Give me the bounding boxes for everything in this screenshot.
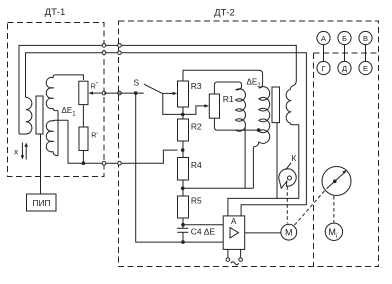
dashed link gauge to Mi <box>333 196 335 223</box>
wire secondary output to DT-2 <box>68 120 178 163</box>
svg-text:S: S <box>134 78 140 88</box>
connector circle V <box>359 31 372 44</box>
amplifier triangle symbol <box>230 228 239 239</box>
svg-text:Е: Е <box>363 64 368 73</box>
switch S arm <box>144 84 163 94</box>
terminal DT-1 wiper output <box>102 91 106 95</box>
svg-text:Б: Б <box>342 34 347 43</box>
svg-text:R3: R3 <box>191 81 202 91</box>
enclosure DT-1 dashed box <box>8 23 105 177</box>
sensor PIP box <box>27 194 57 211</box>
junction T2 winding tap <box>257 128 261 132</box>
terminal DT-2 excitation 1 <box>118 44 122 48</box>
motor M circle <box>281 224 297 240</box>
wire node to amp upper input <box>183 224 223 226</box>
partition dashed line horizontal (indicator section) <box>314 52 379 54</box>
transformer T2 winding B <box>253 87 269 189</box>
capacitor C4 plate top <box>177 227 188 229</box>
wire wiper line to switch <box>104 92 144 94</box>
terminal DT-1 excitation 2 <box>102 51 106 55</box>
arrowhead R1 wiper <box>204 104 209 107</box>
terminal DT-2 excitation 2 <box>118 51 122 55</box>
transformer T2 core <box>272 87 280 123</box>
connector circle B <box>338 31 351 44</box>
load Mi circle <box>325 223 342 240</box>
junction C4 bottom <box>181 240 185 244</box>
resistor R2 <box>178 119 189 141</box>
connector circle G <box>317 61 330 74</box>
mechanical rod T2 core <box>276 123 278 199</box>
arrowhead R3 wiper <box>173 92 178 95</box>
terminal DT-2 signal input <box>118 161 122 165</box>
wire R1 top to T2 winding A <box>214 82 241 94</box>
svg-text:В: В <box>363 34 368 43</box>
svg-text:ΔE1: ΔE1 <box>62 106 77 118</box>
wire amp power lead right <box>240 249 242 257</box>
svg-text:Г: Г <box>321 64 325 73</box>
arrowhead gauge needle <box>342 170 347 174</box>
svg-text:x: x <box>14 147 19 157</box>
displacement input x arrows <box>14 143 28 160</box>
wire R'' to R' <box>82 105 84 127</box>
svg-text:C4: C4 <box>191 226 202 236</box>
resistor R'' <box>79 81 88 104</box>
terminal amp power left <box>226 258 230 262</box>
transformer T1 secondary upper coil <box>46 75 83 111</box>
wire R'' wiper arrow <box>91 92 104 94</box>
svg-text:R5: R5 <box>191 196 202 206</box>
junction R' bottom <box>82 161 86 165</box>
connector circle D <box>338 61 351 74</box>
wire dE2 bottom to R4-R5 node <box>183 187 254 189</box>
transformer T1 primary coil <box>19 97 32 134</box>
terminal amp power right <box>239 258 243 262</box>
capacitor C4 plate bottom <box>177 231 188 233</box>
wire R' bottom to output <box>82 151 84 164</box>
junction amp input node <box>181 223 185 227</box>
svg-text:ДТ-2: ДТ-2 <box>214 8 235 19</box>
wire C4 bottom lead <box>182 232 184 242</box>
wire amp power lead left <box>227 249 229 257</box>
junction S node <box>134 91 138 95</box>
partition dashed line vertical (indicator section) <box>313 53 315 267</box>
wire R3 to R2 <box>182 107 184 119</box>
wire S node down to amp lower input <box>136 93 224 242</box>
mechanical rod core to PIP <box>40 134 42 194</box>
connector circle A <box>317 31 330 44</box>
svg-text:К: К <box>292 154 297 163</box>
wire R5 to C4 <box>182 218 184 228</box>
svg-text:А: А <box>321 34 326 43</box>
relay K pivot circle <box>288 176 292 180</box>
wire link B-D <box>344 45 346 62</box>
wire link A-G <box>323 45 325 62</box>
svg-text:R": R" <box>91 82 98 90</box>
svg-text:R1: R1 <box>223 94 234 104</box>
svg-text:R': R' <box>91 133 97 140</box>
svg-text:ΔE: ΔE <box>204 226 216 236</box>
dashed link M to gauge <box>295 190 325 225</box>
terminal DT-1 excitation 1 <box>102 44 106 48</box>
terminal DT-2 wiper input <box>118 91 122 95</box>
svg-text:ПИП: ПИП <box>32 198 50 208</box>
resistor R4 <box>178 158 189 181</box>
resistor R1 <box>209 94 219 118</box>
resistor R3 <box>178 81 189 107</box>
wire R3 top to T2 primary <box>183 70 263 88</box>
svg-text:R2: R2 <box>191 122 202 132</box>
junction R4-R5 <box>181 187 185 191</box>
enclosure DT-2 dashed box <box>119 21 379 267</box>
wire secondary series link <box>57 111 59 156</box>
junction input node <box>181 148 185 152</box>
amplifier A box <box>223 216 245 250</box>
svg-text:М: М <box>285 228 293 238</box>
gauge circle <box>322 167 351 196</box>
svg-text:A: A <box>231 217 237 226</box>
gauge needle <box>327 172 346 189</box>
wire R3 wiper arrow <box>163 92 174 94</box>
connector circle E <box>359 61 372 74</box>
arrowhead R'' wiper <box>88 91 93 94</box>
junction R3-R2 <box>181 113 185 117</box>
transformer T2 winding A <box>236 89 246 132</box>
gauge center dot <box>333 180 337 184</box>
wire winding A bottom down <box>244 128 246 189</box>
transformer T2 winding C (secondary) <box>228 86 299 216</box>
transformer T1 secondary lower coil <box>46 120 68 156</box>
svg-text:Д: Д <box>342 64 347 73</box>
svg-text:R4: R4 <box>191 160 202 170</box>
wire switch to R3-R2 junction and R1 wiper <box>163 94 206 115</box>
wire R4 to R5 <box>182 180 184 196</box>
relay K leader line <box>286 163 291 170</box>
relay K circle with notch <box>279 169 296 189</box>
wire link V-E <box>365 45 367 62</box>
wire excitation line 1 (top) <box>19 45 296 134</box>
svg-text:Мi: Мi <box>328 227 337 240</box>
wire amp output to motor M <box>245 232 281 234</box>
transformer T1 core <box>36 96 43 134</box>
terminal DT-1 secondary output <box>102 161 106 165</box>
AC supply tilde <box>231 262 239 265</box>
resistor R' <box>79 127 88 151</box>
svg-text:ДТ-1: ДТ-1 <box>45 7 66 18</box>
wire excitation line 2 <box>26 53 307 216</box>
wire R2 to R4 <box>182 141 184 158</box>
wire R1 bottom <box>214 118 258 130</box>
dashed link K to motor M <box>286 186 288 223</box>
resistor R5 <box>178 196 189 218</box>
